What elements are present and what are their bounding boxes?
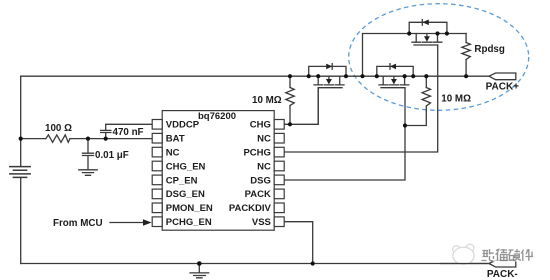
svg-text:PCHG: PCHG [243,148,270,159]
svg-text:BAT: BAT [166,134,185,145]
svg-text:10 MΩ: 10 MΩ [441,94,471,105]
svg-text:Rpdsg: Rpdsg [474,44,504,55]
svg-text:DSG: DSG [250,175,271,186]
svg-text:0.01 μF: 0.01 μF [95,150,129,161]
svg-text:10 MΩ: 10 MΩ [252,95,282,106]
svg-text:470 nF: 470 nF [113,127,144,138]
svg-text:NC: NC [166,148,180,159]
svg-text:VSS: VSS [252,217,271,228]
svg-text:NC: NC [257,134,271,145]
svg-text:PACK-: PACK- [487,269,518,280]
svg-text:bq76200: bq76200 [198,111,236,122]
svg-text:CHG_EN: CHG_EN [166,161,206,172]
svg-text:CHG: CHG [250,120,271,131]
svg-text:PCHG_EN: PCHG_EN [166,217,212,228]
svg-text:PACKDIV: PACKDIV [229,203,272,214]
svg-text:VDDCP: VDDCP [166,120,200,131]
svg-text:PMON_EN: PMON_EN [166,203,213,214]
svg-text:CP_EN: CP_EN [166,175,198,186]
svg-text:DSG_EN: DSG_EN [166,189,205,200]
svg-text:PACK: PACK [245,189,271,200]
svg-text:PACK+: PACK+ [486,82,520,93]
svg-text:From MCU: From MCU [53,218,103,229]
svg-text:NC: NC [257,161,271,172]
svg-text:100 Ω: 100 Ω [45,123,72,134]
